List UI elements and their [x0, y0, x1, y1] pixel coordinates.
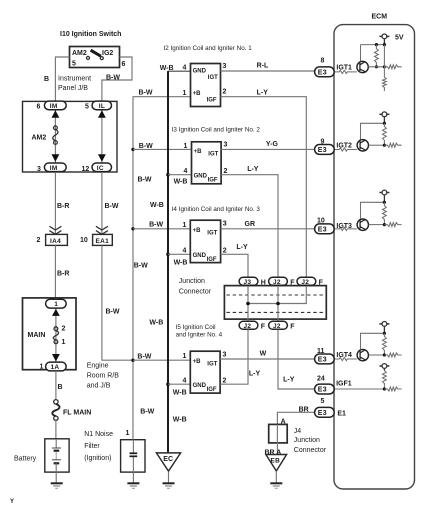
wire: noise filter to ground: [132, 472, 134, 483]
resistor (IGT3 pull-up): [383, 202, 387, 224]
resistor (IGT4 series out): [384, 353, 401, 357]
svg-text:4: 4: [183, 65, 187, 72]
wire: IC12 down to EA1: [101, 173, 103, 234]
wire L-Y: coil4 IGF up to junction J2: [220, 330, 248, 385]
resistor (IGT1 pull-up): [375, 45, 379, 67]
svg-text:Panel J/B: Panel J/B: [58, 85, 88, 92]
svg-text:4: 4: [184, 168, 188, 175]
terminal E3 oval (IGT3): [315, 224, 335, 234]
svg-text:Filter: Filter: [84, 443, 100, 450]
switch lever: [91, 50, 101, 56]
ground triangle EC: [156, 453, 180, 471]
wire: IM to IM inside J/B: [54, 104, 56, 169]
svg-text:L-Y: L-Y: [236, 244, 248, 251]
svg-text:EB: EB: [271, 457, 281, 464]
resistor (IGT1 pull-down): [383, 77, 387, 91]
svg-text:B-R: B-R: [57, 203, 69, 210]
wire: bus to coil2 +B: [133, 148, 191, 150]
ground (EC): [163, 482, 175, 484]
svg-text:1: 1: [40, 364, 44, 371]
svg-text:I10 Ignition Switch: I10 Ignition Switch: [60, 31, 121, 38]
wire Y-G: coil2 IGT to ECM IGT2: [221, 148, 315, 150]
terminal E3 oval (IGT2): [315, 145, 335, 155]
svg-text:B-W: B-W: [138, 177, 152, 184]
svg-text:GR: GR: [245, 221, 256, 228]
transistor Q1 (IGT1 driver): [357, 61, 368, 72]
ignition switch I10 box: [70, 47, 120, 68]
terminal J2 oval (bottom mid): [269, 321, 288, 329]
svg-text:I5 Ignition Coil: I5 Ignition Coil: [176, 324, 216, 331]
svg-text:N1 Noise: N1 Noise: [84, 431, 113, 438]
svg-text:I2 Ignition Coil and Igniter: I2 Ignition Coil and Igniter No. 1: [164, 45, 253, 52]
node: coil4 GND to bus: [166, 382, 170, 386]
svg-text:GND: GND: [193, 253, 207, 259]
junction connector box: [224, 286, 326, 320]
fusible link FL MAIN: [54, 400, 58, 404]
fuse MAIN symbol: [54, 327, 58, 331]
arrow up under IM: [52, 110, 60, 118]
ground (battery): [51, 482, 63, 484]
svg-text:F: F: [261, 323, 266, 330]
terminal 1A oval: [46, 362, 67, 371]
svg-text:1: 1: [183, 353, 187, 360]
resistor (IGT3 series out): [384, 223, 401, 227]
wire through J4: [276, 424, 278, 454]
svg-text:ECM: ECM: [372, 14, 388, 21]
svg-text:J2: J2: [301, 279, 309, 286]
wire: 1A down to FL MAIN: [55, 371, 57, 400]
arrow down (MAIN): [52, 354, 60, 362]
svg-text:F: F: [319, 279, 324, 286]
svg-text:W-B: W-B: [174, 260, 188, 267]
terminal J2 oval (top right): [297, 277, 316, 285]
resistor (IGT2 pull-up): [383, 123, 387, 145]
svg-text:BR: BR: [299, 406, 309, 413]
node: bus to coil3 branch: [131, 227, 134, 230]
capacitor C (noise filter): [132, 440, 134, 453]
junction dashed line top: [227, 294, 325, 296]
noise filter box: [121, 440, 145, 472]
svg-text:IGF: IGF: [207, 97, 217, 103]
svg-text:+B: +B: [194, 149, 203, 155]
svg-text:IGT4: IGT4: [336, 352, 352, 359]
svg-text:IA4: IA4: [50, 238, 61, 245]
svg-text:3: 3: [37, 166, 41, 173]
ground (noise filter): [127, 482, 139, 484]
svg-text:W-B: W-B: [149, 320, 163, 327]
svg-text:Battery: Battery: [14, 456, 37, 463]
base resistor squiggle IGT1: [334, 70, 357, 73]
svg-text:E3: E3: [318, 147, 327, 154]
svg-text:J2: J2: [244, 323, 252, 330]
svg-text:L-Y: L-Y: [257, 90, 269, 97]
node rail (IGT2): [383, 122, 386, 125]
svg-text:+B: +B: [193, 359, 202, 365]
svg-text:J2: J2: [273, 279, 281, 286]
base resistor squiggle IGT3: [334, 227, 357, 230]
svg-text:B: B: [58, 384, 63, 391]
resistor (IGF1 pull-up): [383, 371, 387, 390]
svg-text:GND: GND: [193, 68, 207, 74]
svg-text:B-W: B-W: [137, 354, 151, 361]
svg-text:2: 2: [223, 377, 227, 384]
svg-text:1: 1: [62, 339, 66, 346]
transistor Q2 (IGT2 driver): [357, 140, 368, 151]
node: bus meets engine-room feed: [131, 359, 134, 362]
wire: J2 mid through box: [277, 285, 279, 321]
node: bus to coil2 branch: [131, 148, 134, 151]
B-W bus vertical: [133, 97, 191, 440]
svg-text:AM2: AM2: [32, 135, 47, 142]
wire W: coil4 IGT to ECM IGT4: [220, 358, 315, 360]
svg-text:E3: E3: [318, 387, 327, 394]
svg-text:F: F: [290, 323, 295, 330]
wire: IM3 down to IA4: [54, 173, 56, 234]
wire L-Y: junction J2 down to IGF1: [278, 330, 315, 390]
svg-text:GND: GND: [193, 383, 207, 389]
node output (IGT4): [383, 353, 386, 356]
wire: switch pin6 jog to IL: [102, 57, 132, 101]
node rail-pullup: [375, 43, 378, 46]
svg-text:6: 6: [122, 61, 126, 68]
node rail (IGT3): [383, 201, 386, 204]
svg-text:W-B: W-B: [173, 417, 187, 424]
svg-text:6: 6: [37, 104, 41, 111]
wire: J3 through box: [247, 285, 249, 321]
node output-5V branch: [383, 65, 386, 68]
W-B ground bus (bold): [168, 70, 191, 72]
terminal E3 oval (IGT1): [315, 67, 335, 77]
svg-text:B-R: B-R: [57, 271, 69, 278]
terminal E3 oval (E1): [315, 407, 335, 417]
svg-text:+B: +B: [193, 228, 202, 234]
svg-text:B-W: B-W: [134, 263, 148, 270]
svg-text:W-B: W-B: [173, 390, 187, 397]
battery symbol: [55, 439, 57, 448]
svg-text:IGT: IGT: [207, 231, 217, 237]
svg-text:IGT1: IGT1: [336, 65, 352, 72]
svg-text:1: 1: [184, 143, 188, 150]
svg-text:8: 8: [321, 58, 325, 65]
wire through MAIN: [55, 298, 57, 366]
wire: collector down to transistor: [360, 45, 362, 62]
arrow down above IC 12: [98, 154, 106, 162]
transistor Q3 (IGT3 driver): [357, 219, 368, 230]
node output (IGT2): [383, 144, 386, 147]
wire: IGT1 output row: [368, 66, 384, 68]
svg-text:B-W: B-W: [139, 90, 153, 97]
arrow up (MAIN): [52, 309, 60, 316]
svg-text:W: W: [260, 351, 267, 358]
resistor (IGT4 pull-up): [383, 333, 387, 355]
Instrument Panel J/B box: [23, 101, 118, 172]
svg-text:IG2: IG2: [102, 50, 113, 57]
wire: coil2 GND branch: [168, 174, 192, 176]
svg-text:Y-G: Y-G: [266, 141, 279, 148]
wire: feed to coil4 +B: [133, 359, 190, 361]
svg-text:2: 2: [62, 326, 66, 333]
svg-text:5: 5: [85, 104, 89, 111]
svg-text:GND: GND: [194, 173, 208, 179]
svg-text:E3: E3: [318, 227, 327, 234]
svg-text:Junction: Junction: [179, 278, 205, 285]
switch contact circles: [87, 56, 90, 59]
svg-text:W-B: W-B: [160, 65, 174, 72]
wire R-L: coil1 IGT to ECM IGT1: [221, 70, 315, 72]
svg-text:E3: E3: [318, 410, 327, 417]
svg-text:B-W: B-W: [106, 74, 120, 81]
svg-text:IGT3: IGT3: [336, 223, 352, 230]
power symbol (IGT4): [379, 322, 389, 334]
wire L-Y: coil1 IGF to junction: [221, 97, 307, 278]
wire: coil4 GND branch: [168, 383, 190, 385]
connector chevrons IA4: [49, 226, 61, 234]
terminal 1 oval (MAIN top): [46, 299, 67, 308]
svg-text:W-B: W-B: [150, 202, 164, 209]
ground triangle EB: [266, 455, 287, 472]
svg-text:Engine: Engine: [87, 363, 109, 370]
svg-text:Y: Y: [10, 499, 14, 505]
svg-text:E3: E3: [318, 70, 327, 77]
junction dashed line bottom: [227, 311, 325, 313]
svg-text:1: 1: [183, 222, 187, 229]
svg-text:3: 3: [223, 352, 227, 359]
svg-text:4: 4: [183, 247, 187, 254]
svg-text:F: F: [290, 279, 295, 286]
svg-text:1: 1: [54, 301, 58, 308]
svg-text:1: 1: [183, 90, 187, 97]
svg-text:IGF: IGF: [207, 387, 217, 393]
connector chevrons EA1: [96, 226, 108, 234]
node rail (IGT4): [383, 332, 386, 335]
terminal E3 oval (IGF1): [315, 384, 335, 394]
junction connector J4 box: [269, 424, 288, 443]
wire: EB to ground: [275, 471, 277, 483]
node output (IGT3): [383, 223, 386, 226]
connector EA1 box: [93, 234, 113, 245]
svg-text:2: 2: [37, 237, 41, 244]
arrow up under IL: [98, 110, 106, 118]
svg-text:H: H: [261, 279, 266, 286]
svg-text:B-W: B-W: [105, 203, 119, 210]
wire: battery to ground: [55, 472, 57, 483]
node: junction bus left: [246, 302, 250, 306]
wire: IGT3 output row: [369, 224, 385, 226]
svg-text:1: 1: [126, 430, 130, 437]
svg-text:J2: J2: [273, 323, 281, 330]
svg-text:E1: E1: [337, 411, 346, 418]
wire BR: E1 to J4: [277, 412, 314, 424]
svg-text:4: 4: [183, 377, 187, 384]
svg-text:3: 3: [223, 63, 227, 70]
svg-text:IGT2: IGT2: [336, 143, 352, 150]
power symbol (IGT3): [379, 190, 389, 202]
wire: IGT1 collector rail: [361, 44, 385, 46]
svg-text:5V: 5V: [395, 35, 404, 42]
node IGF1: [383, 387, 386, 390]
svg-text:IGT: IGT: [207, 361, 217, 367]
svg-text:IM: IM: [50, 165, 58, 172]
wire: IGT3 collector rail: [361, 202, 385, 219]
node: coil3 GND to bus: [166, 253, 170, 257]
terminal J3 oval (top): [239, 277, 258, 285]
power symbol 5V (IGT1): [379, 34, 389, 45]
svg-text:J3: J3: [244, 279, 252, 286]
Engine Room R/B MAIN box: [23, 298, 77, 370]
terminal J2 oval (top mid): [269, 277, 288, 285]
svg-text:B: B: [44, 76, 49, 83]
svg-text:Instrument: Instrument: [58, 76, 91, 83]
svg-text:IGT: IGT: [208, 152, 218, 158]
terminal E3 oval (IGT4): [315, 354, 335, 364]
svg-text:2: 2: [223, 89, 227, 96]
svg-text:IGF: IGF: [208, 177, 218, 183]
wire: bus to coil3 +B: [133, 228, 190, 230]
svg-text:Junction: Junction: [294, 437, 320, 444]
resistor (IGT2 series out): [384, 143, 401, 147]
ignition coil I4 box: [190, 220, 220, 262]
ground (EB): [270, 482, 282, 484]
svg-text:5: 5: [321, 398, 325, 405]
svg-text:B-W: B-W: [139, 143, 153, 150]
connector IA4 box: [46, 234, 68, 245]
svg-text:I3 Ignition Coil and Igniter: I3 Ignition Coil and Igniter No. 2: [172, 127, 261, 134]
node pullup-output: [375, 65, 378, 68]
wire L-Y: coil3 IGF to junction J3: [221, 254, 248, 277]
fuse AM2 symbol: [54, 126, 58, 130]
svg-text:IGF1: IGF1: [336, 381, 352, 388]
svg-text:3: 3: [223, 221, 227, 228]
svg-text:B-W: B-W: [140, 409, 154, 416]
svg-text:L-Y: L-Y: [247, 166, 259, 173]
Battery box: [45, 439, 69, 472]
wire: IGF1 row inside ECM: [334, 388, 384, 390]
svg-text:E3: E3: [318, 357, 327, 364]
svg-text:Connector: Connector: [294, 447, 327, 454]
wire: IGT4 output row: [369, 354, 385, 356]
svg-text:IM: IM: [50, 103, 58, 110]
node: coil2 GND to bus: [166, 173, 170, 177]
svg-text:IC: IC: [97, 165, 104, 172]
junction internal bus: [248, 285, 306, 304]
power symbol (IGT2): [379, 112, 389, 123]
svg-text:L-Y: L-Y: [283, 376, 295, 383]
resistor (IGF1 series): [384, 387, 401, 391]
svg-text:R-L: R-L: [257, 63, 269, 70]
svg-text:3: 3: [224, 142, 228, 149]
node: junction bus mid: [276, 302, 280, 306]
power symbol (IGF1): [379, 364, 389, 371]
wire: 5V branch down: [383, 45, 385, 78]
svg-text:B-W: B-W: [149, 222, 163, 229]
svg-text:10: 10: [80, 237, 88, 244]
svg-text:24: 24: [317, 376, 325, 383]
svg-text:MAIN: MAIN: [28, 332, 46, 339]
transistor Q4 (IGT4 driver): [357, 349, 368, 360]
svg-text:12: 12: [82, 166, 90, 173]
wire: IA4 down to MAIN: [54, 245, 56, 299]
arrow down above IM 3: [52, 154, 60, 162]
svg-text:EC: EC: [163, 456, 173, 463]
ignition coil I2 box: [191, 64, 221, 107]
wire: EA1 down to engine room corner: [102, 245, 133, 360]
svg-text:IL: IL: [99, 103, 105, 110]
svg-text:2: 2: [223, 247, 227, 254]
svg-text:Connector: Connector: [179, 289, 212, 296]
svg-text:and J/B: and J/B: [87, 383, 111, 390]
wire: IGT4 collector rail: [361, 333, 385, 349]
resistor (IGT1 series out): [384, 65, 401, 69]
svg-text:2: 2: [224, 168, 228, 175]
svg-text:IGT: IGT: [208, 75, 218, 81]
svg-text:(Ignition): (Ignition): [84, 455, 111, 462]
wire GR: coil3 IGT to ECM IGT3: [221, 228, 315, 230]
svg-text:IGF: IGF: [207, 257, 217, 263]
wire L-Y: coil2 IGF to junction: [221, 175, 278, 278]
wire: coil3 GND branch: [168, 253, 190, 255]
svg-text:FL MAIN: FL MAIN: [63, 410, 91, 417]
wire: IL to IC inside J/B: [101, 104, 103, 169]
wire: IGT2 collector rail: [361, 123, 385, 139]
svg-text:I4 Ignition Coil and Igniter: I4 Ignition Coil and Igniter No. 3: [172, 206, 261, 213]
svg-text:EA1: EA1: [96, 238, 110, 245]
base resistor squiggle IGT4: [334, 357, 357, 360]
svg-text:AM2: AM2: [72, 50, 87, 57]
base resistor squiggle IGT2: [334, 148, 357, 151]
terminal J2 oval (bottom left): [239, 321, 258, 329]
svg-text:L-Y: L-Y: [249, 371, 261, 378]
node rail-5V: [383, 43, 386, 46]
wire: EC to ground: [168, 472, 170, 484]
svg-text:and Igniter No. 4: and Igniter No. 4: [176, 331, 223, 338]
ECM box: [334, 25, 415, 489]
svg-text:W-B: W-B: [174, 179, 188, 186]
svg-text:5: 5: [72, 61, 76, 68]
svg-text:B-W: B-W: [106, 309, 120, 316]
ignition coil I3 box: [192, 142, 222, 184]
svg-text:J4: J4: [294, 428, 302, 435]
svg-text:+B: +B: [193, 91, 202, 97]
svg-text:Room R/B: Room R/B: [87, 373, 120, 380]
wire: IGT2 output row: [369, 144, 385, 146]
wire: switch pin5 to IM: [55, 57, 69, 101]
svg-text:1A: 1A: [51, 364, 60, 371]
wire: FL MAIN to battery: [55, 419, 57, 439]
ignition coil I5 box: [190, 351, 220, 393]
